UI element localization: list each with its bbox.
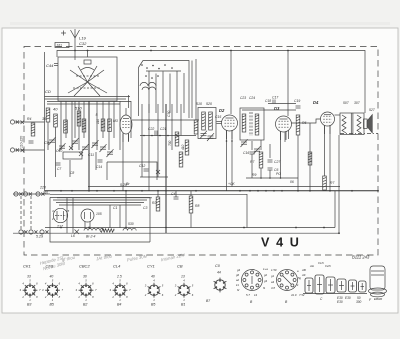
potentiometer R16 — [308, 152, 312, 165]
det bottom bus — [246, 177, 298, 179]
svg-text:CB: CB — [177, 264, 183, 269]
svg-text:06: 06 — [290, 180, 294, 184]
svg-text:E30: E30 — [345, 296, 351, 300]
wire drop 172 — [171, 104, 173, 150]
svg-text:C23: C23 — [240, 96, 246, 100]
svg-text:B2: B2 — [83, 303, 87, 307]
V5 leg b — [329, 126, 331, 191]
capacitor C27 — [268, 160, 273, 162]
tube socket CF9 bottom view — [42, 278, 64, 302]
dropper resistor RD — [100, 229, 114, 233]
V2 top cap — [125, 108, 127, 115]
capacitor C44 plates — [54, 64, 58, 66]
svg-text:C30: C30 — [167, 111, 171, 117]
det wire v7 — [280, 142, 282, 178]
heater winding W1 — [84, 229, 104, 231]
capacitor C20 — [155, 131, 157, 136]
svg-text:40: 40 — [53, 107, 58, 112]
svg-text:B5: B5 — [50, 303, 54, 307]
svg-text:V 4 U: V 4 U — [261, 236, 301, 250]
IF transformer T2 can — [240, 108, 264, 140]
svg-text:40: 40 — [50, 275, 54, 279]
wire drop x114 — [113, 101, 115, 138]
HT supply bus — [57, 51, 365, 114]
svg-text:E30: E30 — [337, 300, 343, 304]
power inner verts — [67, 198, 120, 234]
voltage select wires — [21, 196, 31, 230]
power box outline — [50, 198, 150, 243]
svg-text:44: 44 — [217, 271, 221, 275]
wire drop x79 — [78, 101, 80, 150]
resistor R4 — [31, 123, 35, 136]
svg-text:a2: a2 — [236, 278, 240, 282]
output transformer T3 secondary — [357, 115, 361, 133]
svg-text:Br-2-4: Br-2-4 — [86, 235, 95, 239]
svg-text:C18: C18 — [265, 99, 271, 103]
tube socket CY1 bottom view — [144, 278, 164, 302]
V3 legs down — [226, 131, 228, 191]
svg-text:B7: B7 — [206, 299, 210, 303]
svg-text:3.8: 3.8 — [271, 286, 275, 290]
svg-text:105: 105 — [96, 212, 102, 216]
wire drop x103 — [102, 101, 104, 138]
wire drop x84 — [83, 101, 85, 138]
svg-text:C32: C32 — [79, 41, 87, 46]
wire drop 181 — [180, 104, 182, 136]
trimmer C25 — [241, 139, 248, 147]
capacitor can K3 — [326, 277, 335, 293]
heavy osc wire — [165, 104, 167, 233]
octal socket diagram B — [277, 270, 298, 291]
resistor R5 — [175, 132, 179, 146]
tube CF9 V3 — [222, 115, 238, 139]
V4 legs — [280, 132, 282, 142]
svg-text:D3: D3 — [274, 106, 280, 111]
R15 top wire — [195, 59, 197, 120]
wire drop x72 — [71, 101, 73, 150]
det top wire — [268, 103, 296, 105]
R14 wire — [190, 191, 192, 196]
svg-text:B1: B1 — [181, 303, 185, 307]
svg-text:R7: R7 — [330, 181, 334, 185]
resistor R3 — [46, 108, 50, 122]
svg-text:B4: B4 — [117, 303, 121, 307]
svg-text:36: 36 — [42, 116, 47, 121]
speaker terminal S1 — [19, 230, 28, 234]
trimmer C24 — [207, 133, 214, 141]
phono wire 1 — [15, 121, 45, 123]
svg-text:14: 14 — [254, 293, 258, 297]
volume wire — [309, 123, 311, 191]
chassis dashed box — [24, 47, 378, 256]
coil L4 — [64, 120, 68, 133]
V4 legs2 — [284, 132, 286, 142]
trimmer C4 — [82, 144, 89, 152]
speaker terminal S3 — [40, 230, 49, 234]
svg-text:C19: C19 — [294, 99, 300, 103]
svg-text:R9: R9 — [252, 173, 256, 177]
svg-text:300: 300 — [356, 300, 362, 304]
mains terminal 110 — [36, 192, 45, 196]
trimmer C3 — [72, 138, 79, 146]
capacitor can K6 — [359, 281, 367, 292]
svg-text:C1: C1 — [113, 206, 117, 210]
phono wire 2 — [15, 149, 45, 151]
V3 grid cap — [230, 51, 232, 115]
trimmer C6 — [100, 144, 107, 152]
svg-text:S11: S11 — [57, 44, 63, 48]
mid bus — [140, 135, 196, 137]
svg-text:B5: B5 — [151, 303, 155, 307]
svg-text:700: 700 — [168, 140, 172, 146]
T2 secondary — [255, 114, 259, 135]
svg-text:AB: AB — [301, 268, 306, 272]
capacitor C6 — [268, 168, 273, 170]
wire drop x109 — [108, 101, 110, 150]
rectifier tube CY1 — [53, 208, 67, 222]
svg-text:CBC2: CBC2 — [79, 264, 90, 269]
lamp legs — [84, 222, 86, 230]
svg-text:110: 110 — [96, 119, 100, 124]
V4 grid cap — [287, 51, 289, 117]
svg-text:C44: C44 — [46, 63, 54, 68]
wire L3 down — [55, 127, 57, 177]
svg-text:13: 13 — [181, 275, 185, 279]
octode U1 envelope box — [58, 57, 117, 101]
svg-text:C24: C24 — [249, 96, 255, 100]
svg-text:410: 410 — [181, 144, 185, 150]
capacitor C4 — [174, 197, 179, 199]
capacitor C13 — [29, 141, 34, 143]
svg-text:C27: C27 — [274, 160, 280, 164]
T3 core — [351, 113, 353, 135]
antenna A1 — [71, 29, 80, 60]
capacitor C17 — [273, 100, 275, 104]
V2 leg wire2 — [128, 134, 130, 141]
resistor R6 — [185, 140, 189, 155]
output tube can — [369, 266, 387, 297]
output transformer T3 primary — [342, 115, 346, 133]
svg-text:110: 110 — [43, 191, 48, 195]
resistor R1 — [101, 119, 105, 131]
mains wire row — [13, 193, 50, 195]
padding box — [63, 152, 82, 159]
svg-text:2.5: 2.5 — [116, 275, 122, 279]
svg-text:307: 307 — [354, 101, 360, 105]
svg-text:C11: C11 — [88, 153, 94, 157]
octal socket diagram A — [242, 270, 263, 291]
wire drop 158 — [157, 104, 159, 177]
heavy screen wire — [88, 101, 90, 191]
octal socket A pin labels — [236, 267, 268, 297]
ground cross a — [69, 146, 73, 150]
svg-text:5.29: 5.29 — [36, 235, 43, 239]
svg-text:217: 217 — [56, 225, 64, 229]
V3 legs down2 — [231, 131, 233, 187]
wire drop x97 — [96, 101, 98, 150]
svg-text:L19: L19 — [79, 36, 86, 41]
coil L8 — [179, 152, 183, 167]
oscillator coupling arcs — [140, 82, 156, 90]
tube socket CBC2 bottom view — [75, 278, 97, 302]
R10 wire — [297, 135, 299, 191]
wire drop x75 — [74, 101, 76, 138]
T1 primary — [202, 112, 206, 130]
tube socket CB bottom view — [174, 278, 194, 302]
handwritten note 3 — [95, 253, 113, 261]
svg-text:AF: AF — [301, 273, 306, 277]
lamp legs2 — [89, 222, 91, 230]
coil L5 — [77, 111, 81, 126]
power box inner lines — [53, 200, 147, 205]
return line 2 — [88, 186, 340, 188]
svg-text:D2: D2 — [219, 108, 225, 113]
V2 grid cap riser — [128, 95, 130, 108]
svg-text:B3: B3 — [27, 303, 31, 307]
trimmer detail labels — [301, 261, 332, 277]
capacitor C15 — [217, 122, 222, 124]
svg-text:D4: D4 — [313, 100, 319, 105]
choke winding W2 — [123, 228, 136, 230]
det wire v5 — [269, 144, 271, 158]
svg-text:110-220: 110-220 — [20, 136, 24, 148]
resistor R14 — [189, 196, 193, 213]
svg-text:C14: C14 — [96, 165, 102, 169]
capacitor C12 — [144, 169, 149, 171]
wire drop x61 — [60, 101, 62, 150]
tube socket CL4 bottom view — [109, 278, 131, 302]
svg-text:g2: g2 — [264, 273, 268, 277]
V2 leg wires — [122, 134, 124, 191]
svg-text:5: 5 — [96, 113, 98, 117]
T2 top wire — [242, 109, 296, 111]
switch S11 box — [55, 43, 69, 48]
loudspeaker LS — [364, 115, 373, 134]
capacitor C29 — [56, 163, 61, 165]
det wire v2 — [251, 154, 253, 178]
svg-text:R8: R8 — [195, 204, 199, 208]
svg-text:k1: k1 — [236, 283, 239, 287]
wire drop x131 — [130, 101, 132, 138]
trimmer C23 — [200, 131, 207, 139]
handwritten note 5 — [160, 252, 186, 262]
svg-text:40: 40 — [151, 275, 155, 279]
lamp tube EM — [81, 209, 94, 222]
wire drop 149 — [148, 104, 150, 191]
svg-text:C3: C3 — [143, 206, 147, 210]
socket C0 bottom view — [214, 278, 227, 293]
mains terminal 0 — [23, 192, 32, 196]
capacitor C14 — [98, 160, 103, 162]
svg-text:C22: C22 — [148, 127, 154, 131]
svg-text:510: 510 — [75, 106, 82, 111]
T2 core lines — [250, 112, 252, 136]
svg-text:1+a: 1+a — [263, 267, 268, 271]
handwritten note 1 — [39, 255, 66, 272]
speaker bus — [13, 135, 339, 233]
ground cross c — [156, 170, 160, 174]
decoupling bus — [45, 191, 335, 228]
resistor R7 — [259, 152, 263, 168]
oscillator coil box L2 — [139, 61, 193, 119]
svg-text:+CK: +CK — [228, 182, 235, 186]
IF transformer T1 can — [198, 108, 216, 139]
svg-text:R4: R4 — [27, 117, 31, 121]
phono terminal P1 — [10, 120, 19, 124]
wire drop x66 — [65, 101, 67, 138]
svg-text:C2N: C2N — [325, 264, 332, 268]
return line 3 — [50, 194, 247, 227]
V5 leg a — [324, 126, 326, 176]
wire R3 down — [47, 122, 49, 150]
resistor R10 — [296, 115, 300, 135]
AVC box — [107, 162, 157, 180]
svg-text:5.7: 5.7 — [246, 293, 250, 297]
AF coupling wire — [140, 176, 168, 178]
svg-text:527: 527 — [369, 108, 375, 112]
svg-text:C12: C12 — [139, 164, 145, 168]
handwritten note 4 — [126, 253, 148, 262]
svg-text:g4: g4 — [237, 268, 241, 272]
left vertical feed — [44, 52, 46, 191]
svg-text:CD: CD — [45, 89, 51, 94]
T2 primary — [242, 114, 246, 132]
trimmer C2 — [59, 143, 66, 151]
svg-text:1.50: 1.50 — [271, 268, 277, 272]
svg-text:C4: C4 — [171, 192, 175, 196]
svg-text:CK1: CK1 — [23, 264, 31, 269]
R14 wire2 — [190, 213, 192, 228]
output transformer T3 — [340, 113, 364, 135]
gnd stub b — [95, 152, 97, 170]
coil L3 — [54, 114, 58, 127]
T3 anode wire — [335, 114, 341, 116]
svg-text:B111 243: B111 243 — [352, 254, 370, 259]
svg-text:C8: C8 — [70, 171, 74, 175]
svg-text:g3: g3 — [264, 279, 268, 283]
svg-text:g1: g1 — [271, 274, 275, 278]
svg-text:530: 530 — [128, 222, 134, 226]
capacitor C16 — [250, 152, 255, 154]
capacitor C19 — [296, 106, 301, 108]
svg-text:C10: C10 — [56, 149, 62, 153]
svg-text:a3: a3 — [271, 280, 275, 284]
V5 grid wire — [291, 119, 321, 123]
det wire v1 — [251, 141, 253, 150]
phono terminal P2 — [10, 148, 19, 152]
svg-text:C9: C9 — [44, 140, 50, 145]
trimmer C5 — [92, 140, 99, 148]
resistor R11 — [323, 176, 327, 190]
trimmer C28 — [107, 149, 114, 157]
svg-text:g6: g6 — [236, 273, 240, 277]
svg-text:C17: C17 — [272, 96, 278, 100]
svg-text:220: 220 — [39, 186, 46, 190]
coil L6a — [82, 119, 86, 132]
wire x126 down — [125, 191, 127, 228]
return line 4 — [57, 197, 152, 199]
det wire v6 — [269, 170, 271, 178]
svg-text:C7: C7 — [57, 167, 61, 171]
det wire v4 — [260, 168, 262, 178]
svg-text:520: 520 — [206, 102, 212, 106]
can row base line — [303, 293, 367, 295]
capacitor can K5 — [349, 280, 357, 292]
svg-text:PO: PO — [276, 172, 281, 176]
octode U1 electrodes — [68, 51, 107, 97]
det wire v3 — [260, 140, 262, 150]
resistor R13 — [156, 197, 160, 211]
octal socket B pin labels — [271, 268, 305, 297]
svg-text:C21: C21 — [160, 127, 166, 131]
ground cross b — [79, 152, 83, 156]
T1 feed — [196, 119, 198, 121]
svg-text:41.0: 41.0 — [291, 293, 297, 297]
svg-text:C16: C16 — [243, 151, 249, 155]
svg-text:R2: R2 — [152, 201, 156, 205]
gnd stub a — [69, 160, 71, 177]
mains terminal 220 — [14, 192, 23, 196]
capacitor can K2 — [315, 275, 324, 294]
svg-text:C1N: C1N — [318, 261, 325, 265]
svg-text:f2: f2 — [237, 288, 240, 292]
oscillator inner screen — [146, 71, 184, 113]
svg-text:507: 507 — [343, 101, 349, 105]
capacitor can K1 — [305, 278, 313, 293]
svg-text:C15: C15 — [215, 115, 221, 119]
T1 secondary — [209, 112, 213, 130]
V4 legs3 — [288, 131, 290, 140]
capacitor can K4 — [337, 279, 346, 292]
plus mark — [61, 31, 66, 36]
handwritten note 2 — [61, 255, 76, 263]
svg-text:510: 510 — [196, 102, 202, 106]
V2 anode wire — [132, 119, 199, 121]
wire drop x120 — [119, 101, 121, 150]
scan artifact top band — [10, 22, 390, 25]
svg-text:L6: L6 — [71, 234, 75, 238]
R13 wire — [157, 191, 159, 197]
tube CF9 V2 — [120, 115, 132, 142]
speaker field dashdot — [340, 132, 378, 134]
oscillator trimmer dots — [141, 64, 143, 66]
ground bus main — [45, 190, 379, 192]
svg-text:30: 30 — [83, 275, 87, 279]
svg-text:EB0M: EB0M — [374, 297, 383, 301]
C4 wire — [175, 191, 177, 197]
svg-text:33: 33 — [27, 275, 31, 279]
wire drop 142 — [141, 104, 143, 177]
tube socket CK1 bottom view — [19, 278, 41, 302]
nested return lines under U1 — [45, 97, 132, 105]
trimmer C1 — [49, 137, 56, 145]
resistor R2 — [108, 119, 112, 132]
speaker terminal S2 — [29, 230, 38, 234]
svg-text:CL4: CL4 — [113, 264, 121, 269]
tube CBC2 V4 — [276, 116, 292, 140]
resistor R15 — [194, 120, 198, 134]
cross L6 — [75, 230, 80, 235]
phono cross x1 — [21, 121, 25, 125]
svg-text:M3: M3 — [113, 119, 118, 123]
svg-text:CY1: CY1 — [147, 264, 155, 269]
phono cross x2 — [21, 149, 25, 153]
tube CL4 V5 — [321, 112, 335, 134]
trimmer C26 — [254, 146, 261, 154]
